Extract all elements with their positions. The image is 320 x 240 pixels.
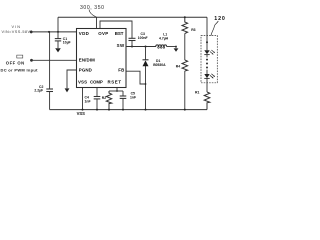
svg-text:R1: R1: [195, 91, 199, 95]
ground (L1 output): [174, 48, 179, 51]
resistor R2: [106, 91, 111, 110]
svg-text:VSS: VSS: [78, 80, 87, 85]
svg-text:DC or PWM Input: DC or PWM Input: [1, 67, 39, 72]
capacitor C5: [122, 91, 124, 96]
svg-text:OVP: OVP: [98, 31, 108, 36]
wire R3 to R4: [184, 34, 186, 61]
node EN terminal: [30, 59, 33, 62]
wire LED branch riser: [206, 17, 208, 50]
svg-text:B0530A: B0530A: [153, 63, 166, 67]
resistor R3: [182, 17, 188, 33]
node junction top rail R3 branch: [184, 16, 186, 18]
svg-text:R4: R4: [176, 64, 180, 68]
svg-text:1nF: 1nF: [130, 96, 136, 100]
capacitor C1: [57, 32, 59, 39]
resistor R1: [204, 92, 210, 110]
wire R4 to ground rail: [184, 71, 186, 110]
diode D1: [145, 47, 147, 60]
ground (PGND): [65, 88, 70, 92]
svg-text:100nF: 100nF: [138, 36, 148, 40]
wire FB pin: [126, 71, 146, 84]
wire SW output: [126, 46, 156, 48]
LED module dashed box: [201, 36, 217, 83]
wire comp network top: [109, 90, 123, 92]
wire RSET pin stub: [116, 88, 118, 92]
wire VIN to top rail riser: [57, 17, 59, 32]
wire PGND pin to ground: [67, 70, 77, 88]
svg-text:BST: BST: [115, 31, 124, 36]
node junction SW/D1: [145, 46, 147, 48]
svg-text:R2: R2: [102, 96, 106, 100]
svg-text:2.2µF: 2.2µF: [34, 89, 43, 93]
wire VIN rail: [33, 31, 77, 33]
capacitor C2: [49, 32, 51, 89]
wire leader 300/350: [89, 10, 96, 18]
wire VSS pin stub: [82, 88, 84, 110]
node junction SW/C3: [131, 46, 133, 48]
wire ground rail (VSS): [50, 109, 207, 111]
svg-text:VIN: VIN: [12, 25, 21, 29]
svg-text:4.7µH: 4.7µH: [159, 36, 169, 40]
svg-text:VSS: VSS: [77, 111, 86, 116]
ground (C1): [55, 48, 61, 52]
svg-text:OFF ON: OFF ON: [6, 60, 24, 65]
svg-text:10µF: 10µF: [63, 41, 71, 45]
node junction on VIN rail (C1 branch): [57, 31, 59, 33]
wire OVP pin riser: [96, 17, 98, 28]
op-amp U1 main IC body: [77, 29, 127, 88]
LED D2: [204, 50, 209, 54]
switch OFF/ON: [17, 55, 23, 58]
capacitor C3: [129, 37, 136, 39]
svg-text:VIN=VSS-58V: VIN=VSS-58V: [2, 30, 31, 34]
wire L1 to ground: [167, 46, 176, 48]
capacitor C4 on COMP pin: [96, 88, 98, 97]
svg-text:SW: SW: [117, 43, 125, 48]
node ellipsis dots (more LEDs): [206, 59, 208, 61]
LED D3: [204, 74, 209, 78]
svg-text:R3: R3: [191, 28, 195, 32]
wire BST pin to C3: [100, 21, 132, 38]
resistor R4: [182, 60, 188, 71]
wire top rail: [58, 16, 207, 18]
node junction on VIN rail (C2 branch): [48, 31, 50, 33]
svg-text:EN/DIM: EN/DIM: [79, 58, 95, 63]
svg-text:VDD: VDD: [79, 31, 89, 36]
svg-text:120: 120: [214, 16, 225, 22]
svg-text:PGND: PGND: [79, 67, 92, 72]
svg-text:FB: FB: [118, 67, 124, 72]
svg-text:COMP: COMP: [90, 80, 103, 85]
svg-text:1nF: 1nF: [85, 100, 91, 104]
wire leader 120: [211, 21, 218, 36]
svg-text:300, 350: 300, 350: [80, 5, 104, 11]
wire EN/DIM input: [33, 59, 77, 61]
node VIN terminal: [30, 31, 33, 34]
inductor L1: [156, 45, 167, 47]
svg-text:RSET: RSET: [108, 80, 122, 85]
